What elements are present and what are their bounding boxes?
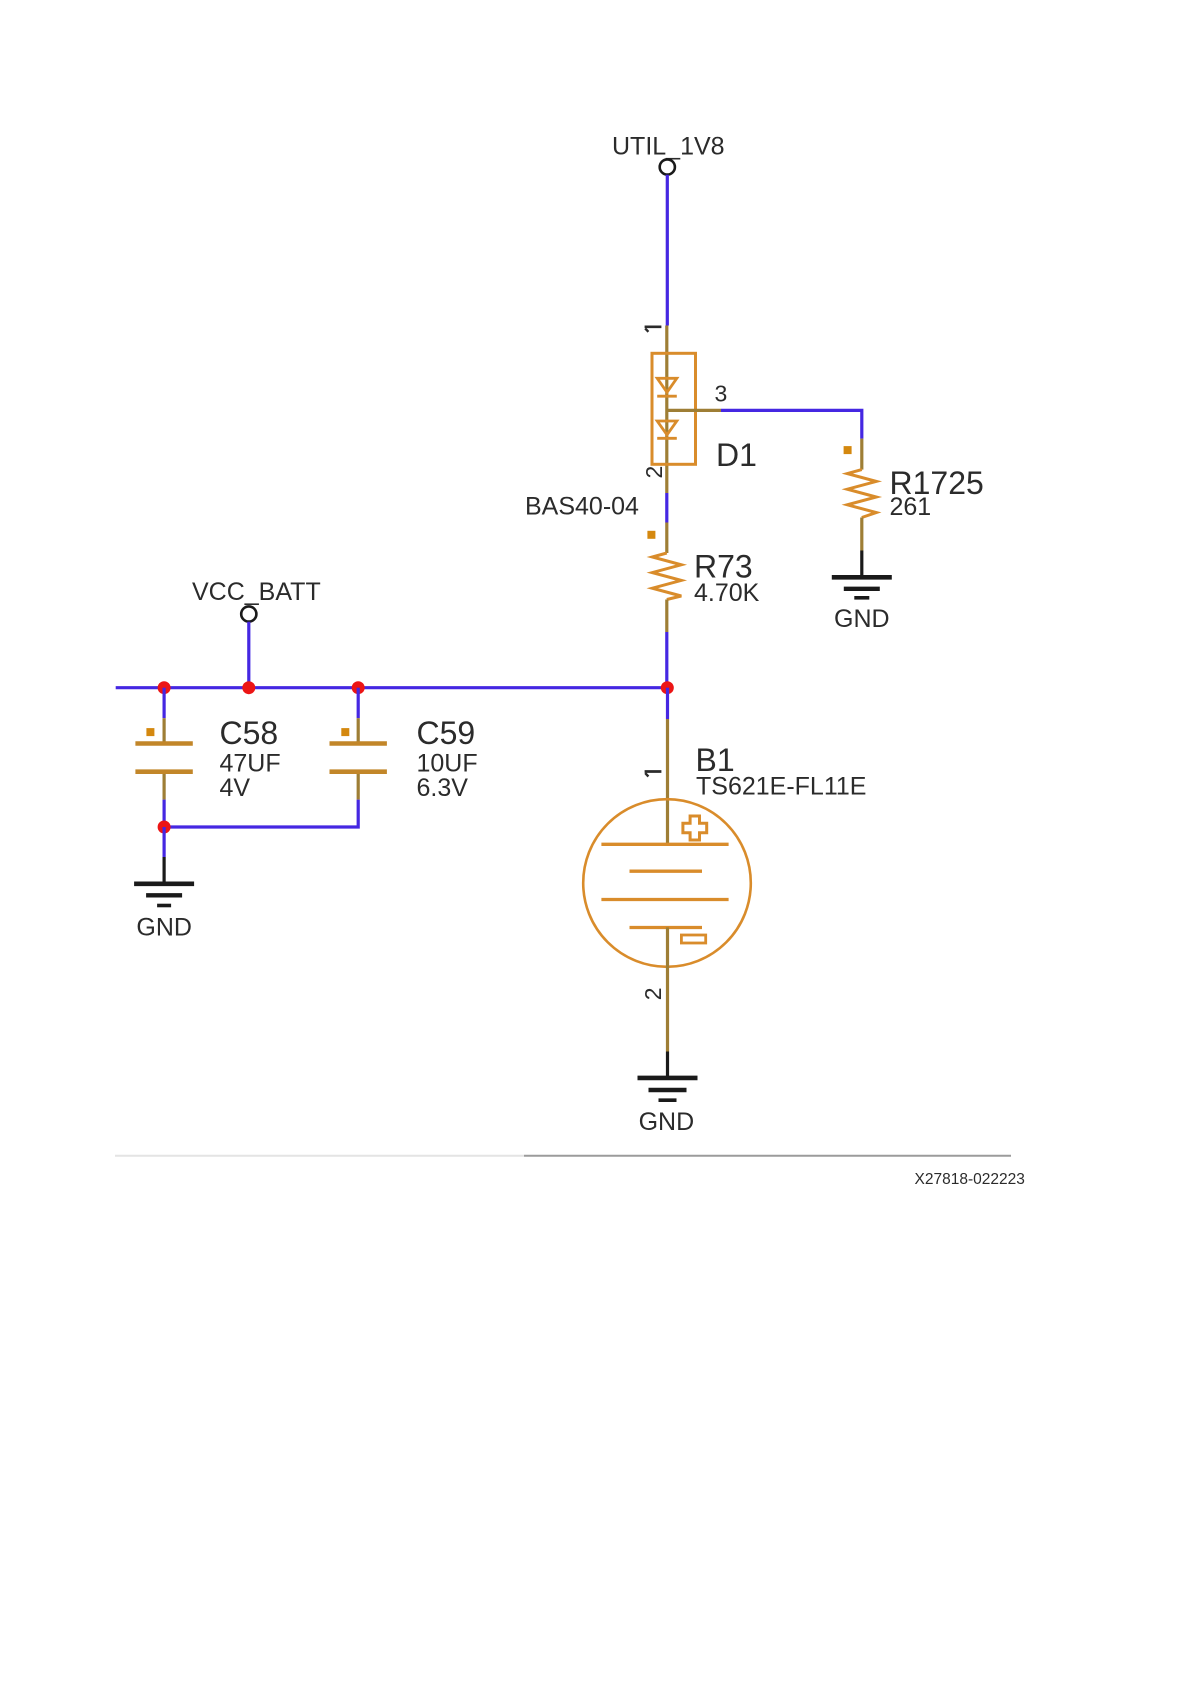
pin 1 label B1 — [645, 772, 662, 777]
capacitor C58 — [135, 744, 192, 772]
wire junction to B1 — [666, 688, 669, 719]
diode D1 bottom diode — [657, 421, 677, 438]
svg-text:UTIL_1V8: UTIL_1V8 — [612, 133, 725, 161]
wire C59 bottom to bus — [164, 800, 358, 827]
svg-text:C58: C58 — [220, 715, 279, 751]
ground GND (B1) — [638, 1078, 698, 1100]
svg-text:GND: GND — [136, 914, 192, 942]
pin wire D1 pin1/pin2 vertical — [665, 326, 668, 494]
svg-text:6.3V: 6.3V — [417, 774, 469, 802]
pin wire R73 top — [665, 523, 668, 554]
pin wire B1 pin1 — [666, 719, 669, 844]
pin wire C58 top — [163, 718, 166, 743]
divider line right — [524, 1155, 1011, 1157]
svg-text:4.70K: 4.70K — [694, 579, 760, 607]
battery B1 plate 4 — [630, 926, 703, 929]
terminal UTIL_1V8 — [660, 159, 675, 174]
divider line left — [115, 1155, 524, 1157]
battery B1 body circle — [583, 799, 751, 967]
junction at C59 top — [352, 681, 365, 694]
pin wire D1 pin3 — [667, 409, 721, 412]
battery B1 plus sign — [683, 816, 707, 840]
svg-text:BAS40-04: BAS40-04 — [525, 493, 639, 521]
svg-text:GND: GND — [834, 605, 890, 633]
pin marker C59 — [341, 728, 349, 736]
junction at C58 top — [158, 681, 171, 694]
svg-text:4V: 4V — [220, 774, 251, 802]
junction at VCC_BATT — [242, 681, 255, 694]
battery B1 plate 1 — [601, 843, 728, 846]
ground GND (R1725) — [832, 577, 892, 598]
pin marker C58 — [146, 728, 154, 736]
wire UTIL_1V8 vertical — [666, 175, 669, 326]
pin wire R73 bottom — [665, 600, 668, 633]
battery B1 plate 3 — [601, 898, 728, 901]
svg-text:3: 3 — [715, 381, 728, 407]
pin wire R1725 top — [860, 439, 863, 470]
pin 1 label D1 — [645, 327, 662, 332]
diode D1 top diode — [657, 378, 677, 396]
battery B1 minus sign — [681, 935, 705, 943]
svg-text:VCC_BATT: VCC_BATT — [192, 578, 321, 606]
svg-text:TS621E-FL11E: TS621E-FL11E — [696, 773, 866, 801]
pin marker R73 — [647, 531, 655, 539]
diode D1 body box — [652, 353, 696, 464]
svg-text:GND: GND — [639, 1108, 695, 1136]
wire net D1.3 to R1725 — [721, 410, 862, 438]
pin wire B1 pin2 — [666, 927, 669, 1051]
resistor R73 — [652, 553, 681, 600]
wire VCC_BATT stub — [247, 622, 250, 688]
wire net D1.2 to R73 — [665, 493, 668, 523]
svg-text:2: 2 — [640, 988, 666, 1001]
ground GND (C58) — [134, 884, 194, 906]
wire C58 top — [163, 688, 166, 719]
svg-text:261: 261 — [890, 493, 932, 521]
resistor R1725 — [847, 470, 876, 518]
wire C59 top — [357, 688, 360, 719]
svg-text:C59: C59 — [417, 715, 476, 751]
svg-text:2: 2 — [641, 466, 667, 479]
wire C58 bottom — [163, 800, 166, 827]
svg-text:X27818-022223: X27818-022223 — [915, 1171, 1025, 1188]
junction at C58 bottom — [158, 821, 171, 834]
pin wire C59 bottom — [357, 774, 360, 800]
wire R1725 to GND — [860, 551, 863, 578]
junction at R73/B1 — [661, 681, 674, 694]
wire GND stub (B1) — [666, 1052, 669, 1078]
wire GND stub (C58) — [163, 857, 166, 884]
capacitor C59 — [330, 744, 387, 772]
pin wire C59 top — [357, 718, 360, 743]
wire VCC_BATT main horizontal — [116, 686, 668, 689]
battery B1 plate 2 — [630, 870, 703, 873]
wire R73 to junction — [665, 632, 668, 688]
pin wire C58 bottom — [163, 774, 166, 800]
pin marker R1725 — [844, 446, 852, 454]
svg-text:D1: D1 — [716, 437, 757, 473]
wire C58 bottom to GND — [163, 827, 166, 857]
pin wire R1725 bottom — [860, 518, 863, 551]
terminal VCC_BATT — [241, 606, 256, 621]
